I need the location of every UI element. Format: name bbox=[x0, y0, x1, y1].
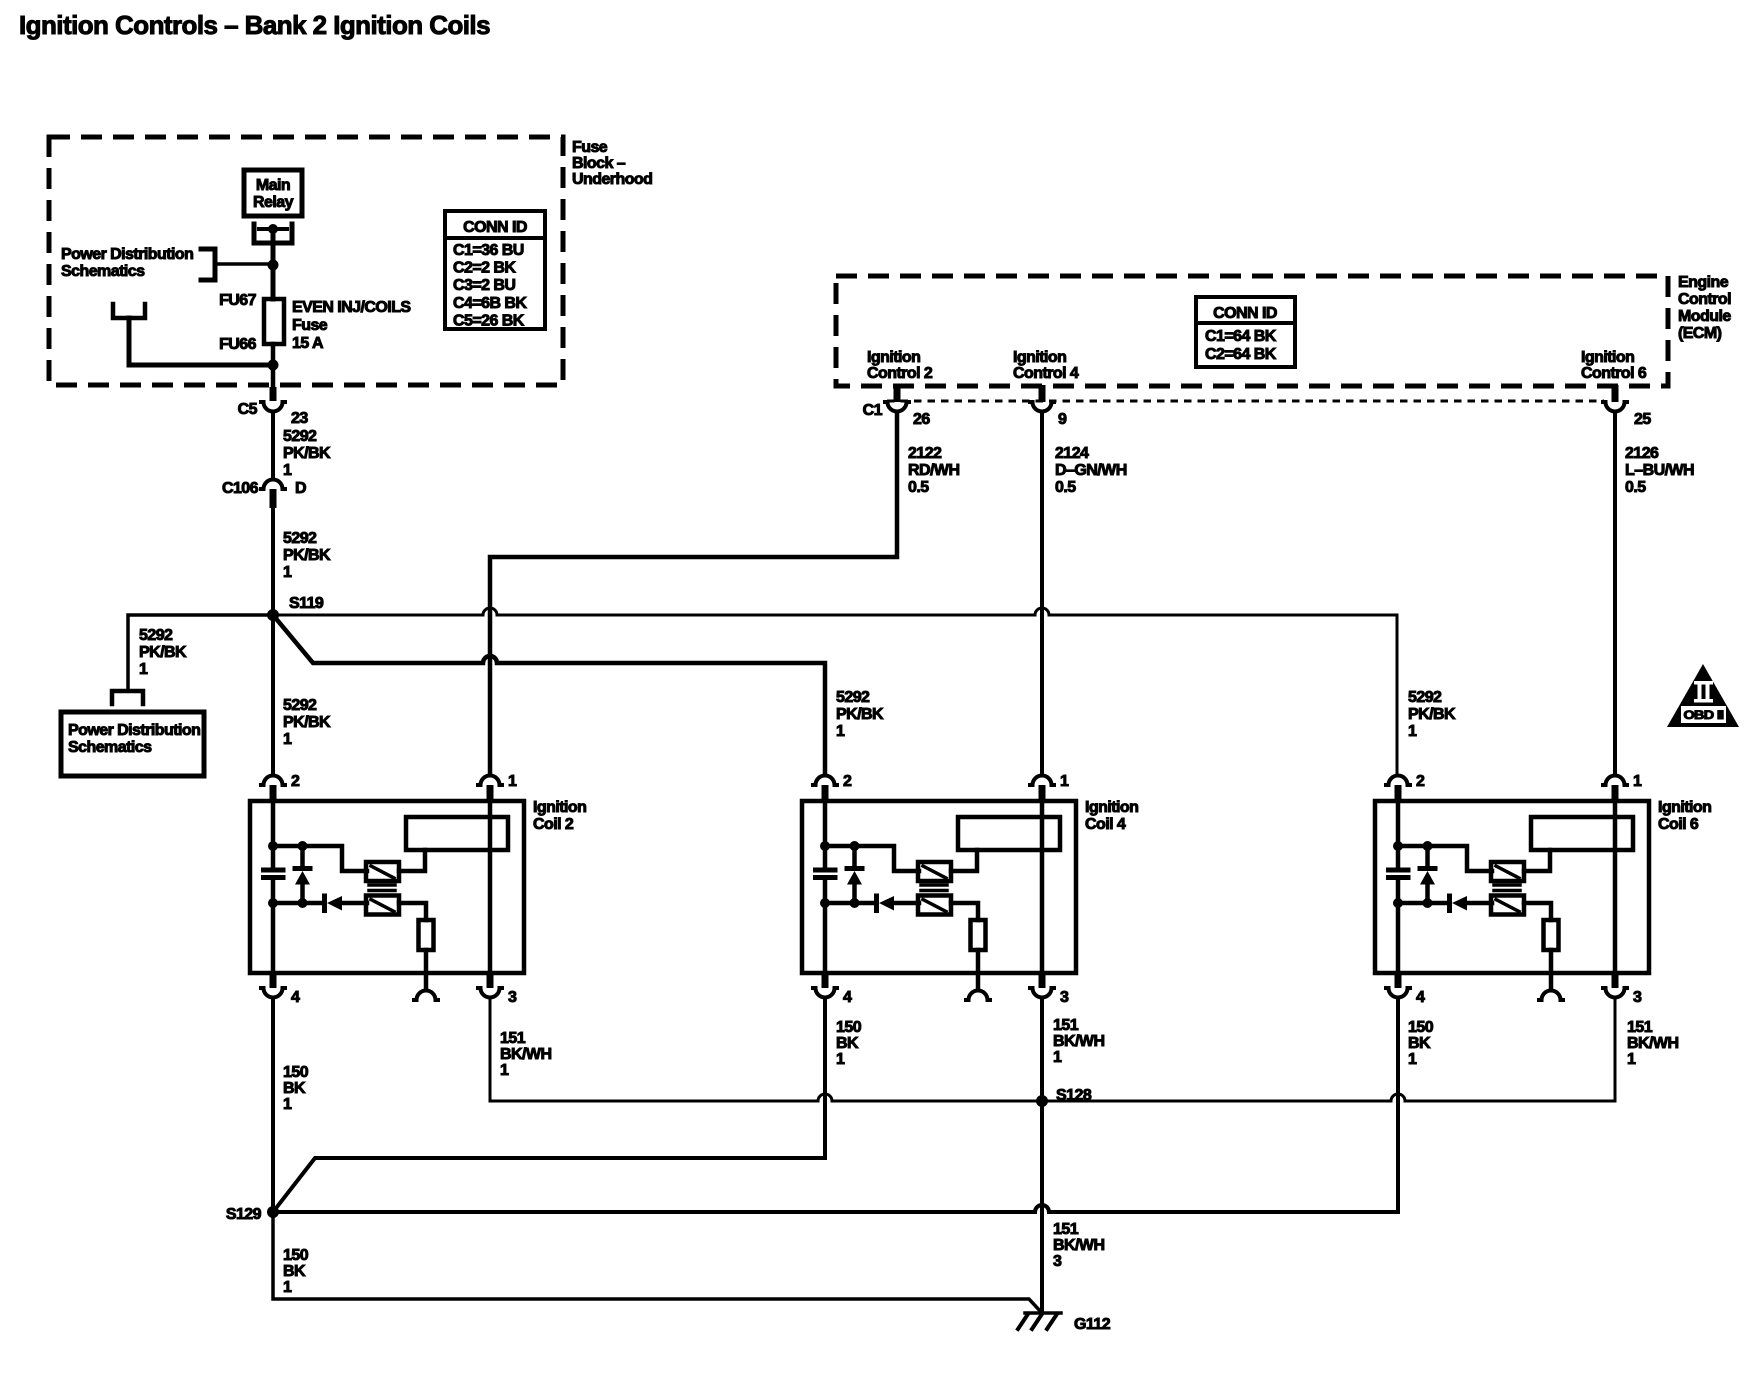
svg-text:Ignition: Ignition bbox=[1658, 799, 1711, 816]
svg-text:3: 3 bbox=[508, 989, 517, 1006]
svg-text:Fuse: Fuse bbox=[292, 317, 328, 334]
label: 151 BK/WH 1 (coil 2) bbox=[500, 1030, 551, 1079]
node: coil 4 bottom rail junction bbox=[820, 898, 830, 908]
svg-text:1: 1 bbox=[139, 661, 148, 678]
svg-text:C5: C5 bbox=[238, 401, 258, 418]
node: fuse bottom junction bbox=[268, 360, 279, 371]
svg-text:4: 4 bbox=[291, 989, 300, 1006]
label FU67 bbox=[219, 292, 257, 309]
svg-text:C1=36 BU: C1=36 BU bbox=[453, 242, 524, 259]
wire 151 BK/WH bus: coil 2 pin 3 to coil 6 pin 3 (hops at coil 4/6 pin 4 wires) bbox=[490, 1000, 1615, 1101]
label: 5292 PK/BK 1 bbox=[283, 530, 331, 581]
zener diode (coil 6) bbox=[1420, 846, 1435, 903]
ground G112 bbox=[1018, 1313, 1111, 1333]
zener diode (coil 4) bbox=[847, 846, 862, 903]
svg-text:0.5: 0.5 bbox=[1625, 479, 1646, 496]
coil winding block (coil 6) bbox=[1531, 817, 1633, 850]
svg-text:1: 1 bbox=[508, 773, 517, 790]
svg-text:2124: 2124 bbox=[1055, 445, 1089, 462]
svg-text:5292: 5292 bbox=[836, 689, 870, 706]
svg-text:Fuse: Fuse bbox=[572, 139, 608, 156]
label: 150 BK 1 (S129 to ground) bbox=[283, 1247, 309, 1296]
svg-text:PK/BK: PK/BK bbox=[283, 547, 331, 564]
svg-text:EVEN INJ/COILS: EVEN INJ/COILS bbox=[292, 299, 411, 316]
coil 2 secondary terminal connector bbox=[414, 991, 438, 1001]
svg-text:26: 26 bbox=[913, 411, 930, 428]
resistor (coil 2) bbox=[419, 920, 434, 950]
svg-text:BK: BK bbox=[283, 1263, 306, 1280]
optocoupler upper (coil 2) bbox=[366, 862, 399, 881]
wire 150 BK: coil 2 pin 4 down to S129 bbox=[271, 1000, 275, 1212]
svg-text:(ECM): (ECM) bbox=[1678, 325, 1722, 342]
svg-text:Ignition: Ignition bbox=[1085, 799, 1138, 816]
coil 2 pin 1 connector bbox=[478, 773, 517, 801]
svg-text:Block –: Block – bbox=[572, 155, 626, 172]
svg-text:Control 2: Control 2 bbox=[867, 365, 933, 382]
label: 5292 PK/BK 1 (coil 2 feed) bbox=[283, 697, 331, 748]
node: zener bottom (coil 6) bbox=[1423, 898, 1433, 908]
node: coil 2 top rail junction bbox=[268, 841, 278, 851]
svg-text:1: 1 bbox=[283, 1279, 292, 1296]
label: Ignition Coil 6 bbox=[1658, 799, 1711, 833]
svg-text:S128: S128 bbox=[1056, 1087, 1092, 1104]
svg-text:1: 1 bbox=[283, 462, 292, 479]
label FU66 bbox=[219, 336, 257, 353]
label: Power Distribution Schematics (top) bbox=[61, 246, 193, 280]
main relay terminal symbol bbox=[254, 224, 292, 243]
svg-text:1: 1 bbox=[836, 1051, 845, 1068]
svg-text:1: 1 bbox=[283, 731, 292, 748]
coil 6 secondary terminal connector bbox=[1539, 991, 1563, 1001]
node: zener bottom (coil 4) bbox=[850, 898, 860, 908]
svg-text:Coil 4: Coil 4 bbox=[1085, 816, 1126, 833]
ignition coil 4 module box bbox=[802, 801, 1076, 973]
svg-text:Control 6: Control 6 bbox=[1581, 365, 1647, 382]
ECM connector pin 9 bbox=[1030, 385, 1067, 428]
splice S129 bbox=[226, 1206, 279, 1223]
wire: coil 4 internal pin 2 rail bbox=[823, 801, 828, 973]
fuse block underhood dashed box bbox=[49, 137, 563, 385]
node: zener top (coil 6) bbox=[1423, 841, 1433, 851]
isolation barrier (coil 6) bbox=[1494, 885, 1520, 891]
svg-text:1: 1 bbox=[283, 564, 292, 581]
svg-text:Relay: Relay bbox=[253, 194, 294, 211]
svg-text:Power Distribution: Power Distribution bbox=[61, 246, 193, 263]
label: 5292 PK/BK 1 (left branch) bbox=[139, 627, 187, 678]
fuse FU67/FU66 EVEN INJ/COILS 15 A bbox=[264, 299, 284, 344]
off-page bracket to power distribution bbox=[201, 249, 215, 280]
svg-text:OBD II: OBD II bbox=[1684, 708, 1724, 722]
svg-text:25: 25 bbox=[1634, 411, 1651, 428]
svg-text:2122: 2122 bbox=[908, 445, 942, 462]
svg-text:150: 150 bbox=[836, 1019, 862, 1036]
label: 2124 D-GN/WH 0.5 bbox=[1055, 445, 1127, 496]
svg-text:PK/BK: PK/BK bbox=[283, 445, 331, 462]
svg-text:C106: C106 bbox=[222, 480, 259, 497]
coil 4 pin 2 connector bbox=[813, 773, 852, 801]
node: coil 6 top rail junction bbox=[1393, 841, 1403, 851]
zener diode (coil 2) bbox=[295, 846, 310, 903]
svg-text:Engine: Engine bbox=[1678, 274, 1729, 291]
svg-text:Underhood: Underhood bbox=[572, 171, 652, 188]
svg-text:0.5: 0.5 bbox=[1055, 479, 1076, 496]
svg-text:C2=2 BK: C2=2 BK bbox=[453, 260, 516, 277]
svg-text:PK/BK: PK/BK bbox=[836, 706, 884, 723]
svg-text:Coil 2: Coil 2 bbox=[533, 816, 574, 833]
optocoupler lower (coil 6) bbox=[1491, 896, 1524, 915]
label: Ignition Control 4 bbox=[1013, 349, 1079, 382]
wire: upper opto to coil winding (coil 2) bbox=[399, 850, 425, 871]
wire: resistor to secondary terminal (coil 4) bbox=[976, 950, 981, 989]
svg-text:C4=6B BK: C4=6B BK bbox=[453, 295, 527, 312]
CONN ID table (ECM) bbox=[1196, 297, 1295, 367]
svg-text:BK: BK bbox=[836, 1035, 859, 1052]
label: 2126 L-BU/WH 0.5 bbox=[1625, 445, 1694, 496]
splice S119 bbox=[267, 595, 324, 621]
off-page cup above power distribution box bbox=[112, 691, 143, 704]
svg-text:2126: 2126 bbox=[1625, 445, 1659, 462]
node: zener top (coil 2) bbox=[298, 841, 308, 851]
svg-text:23: 23 bbox=[291, 410, 308, 427]
splice S128 bbox=[1036, 1087, 1092, 1107]
connector C5 pin 23 bbox=[238, 387, 309, 427]
svg-text:1: 1 bbox=[283, 1096, 292, 1113]
wire: resistor to secondary terminal (coil 6) bbox=[1549, 950, 1554, 989]
node: coil 6 bottom rail junction bbox=[1393, 898, 1403, 908]
wire: lower opto to resistor (coil 4) bbox=[951, 903, 978, 920]
ECM connector pin 26 (C1) bbox=[863, 385, 931, 428]
label: Ignition Coil 2 bbox=[533, 799, 586, 833]
svg-text:S129: S129 bbox=[226, 1206, 262, 1223]
svg-text:3: 3 bbox=[1060, 989, 1069, 1006]
connector C106 pin D bbox=[222, 480, 306, 508]
svg-text:Power Distribution: Power Distribution bbox=[68, 722, 200, 739]
coil 4 pin 3 connector bbox=[1030, 973, 1069, 1006]
svg-text:RD/WH: RD/WH bbox=[908, 462, 959, 479]
svg-text:C3=2 BU: C3=2 BU bbox=[453, 277, 515, 294]
svg-text:1: 1 bbox=[1053, 1049, 1062, 1066]
svg-text:L–BU/WH: L–BU/WH bbox=[1625, 462, 1694, 479]
svg-text:4: 4 bbox=[843, 989, 852, 1006]
coil 6 pin 1 connector bbox=[1603, 773, 1642, 801]
svg-text:BK/WH: BK/WH bbox=[1053, 1237, 1104, 1254]
wire 2124 D-GN/WH: pin 9 to coil 4 pin 1 bbox=[1040, 413, 1044, 775]
label: 5292 PK/BK 1 bbox=[283, 428, 331, 479]
wire: bracket to relay junction bbox=[215, 262, 268, 266]
wire: S119 down to ignition coil 2 pin 2 bbox=[271, 615, 275, 775]
optocoupler upper (coil 6) bbox=[1491, 862, 1524, 881]
CONN ID table (fuse block) bbox=[445, 211, 545, 329]
svg-text:5292: 5292 bbox=[283, 428, 317, 445]
coil 2 pin 4 connector bbox=[261, 973, 300, 1006]
wire: S129 bus (hop at ground wire) bbox=[273, 1205, 1398, 1212]
wire: upper opto to coil winding (coil 6) bbox=[1524, 850, 1550, 871]
svg-text:PK/BK: PK/BK bbox=[139, 644, 187, 661]
wire: coil 4 internal pin 1 rail bbox=[1040, 801, 1045, 973]
isolation barrier (coil 4) bbox=[921, 885, 947, 891]
wire: resistor to secondary terminal (coil 2) bbox=[424, 950, 429, 989]
label: 150 BK 1 (coil 2) bbox=[283, 1064, 309, 1113]
wire: coil 4 top branch bbox=[825, 846, 919, 871]
diode (coil 2 control) bbox=[273, 896, 367, 911]
svg-text:BK: BK bbox=[1408, 1035, 1431, 1052]
wire: coil 2 internal pin 1 rail bbox=[488, 801, 493, 973]
svg-text:2: 2 bbox=[291, 773, 300, 790]
svg-text:5292: 5292 bbox=[1408, 689, 1442, 706]
svg-text:150: 150 bbox=[1408, 1019, 1434, 1036]
svg-text:BK/WH: BK/WH bbox=[1627, 1035, 1678, 1052]
svg-text:3: 3 bbox=[1053, 1253, 1062, 1270]
svg-text:15 A: 15 A bbox=[292, 335, 324, 352]
coil 6 pin 2 connector bbox=[1386, 773, 1425, 801]
coil winding block (coil 2) bbox=[406, 817, 508, 850]
label: Engine Control Module (ECM) bbox=[1678, 274, 1731, 342]
wire 150 BK: S129 down and right to ground bbox=[273, 1212, 1042, 1313]
ignition coil 6 module box bbox=[1375, 801, 1649, 973]
svg-text:FU66: FU66 bbox=[219, 336, 257, 353]
label: 151 BK/WH 3 bbox=[1053, 1221, 1104, 1270]
svg-text:9: 9 bbox=[1058, 411, 1067, 428]
coil 4 secondary terminal connector bbox=[966, 991, 990, 1001]
wire: fuse bottom to C5 bbox=[271, 344, 276, 387]
wire: coil 2 internal pin 2 rail bbox=[271, 801, 276, 973]
svg-text:Ignition: Ignition bbox=[867, 349, 920, 366]
wire: lower opto to resistor (coil 6) bbox=[1524, 903, 1551, 920]
wire: upper opto to coil winding (coil 4) bbox=[951, 850, 977, 871]
wire: coil 6 top branch bbox=[1398, 846, 1492, 871]
label: Ignition Coil 4 bbox=[1085, 799, 1138, 833]
label: EVEN INJ/COILS Fuse 15 A bbox=[292, 299, 411, 352]
label: 150 BK 1 (coil 6) bbox=[1408, 1019, 1434, 1068]
node: zener bottom (coil 2) bbox=[298, 898, 308, 908]
svg-text:FU67: FU67 bbox=[219, 292, 257, 309]
engine control module (ECM) dashed box bbox=[836, 276, 1668, 386]
wire: coil 6 internal pin 2 rail bbox=[1396, 801, 1401, 973]
coil 2 pin 3 connector bbox=[478, 973, 517, 1006]
node: coil 4 top rail junction bbox=[820, 841, 830, 851]
svg-text:1: 1 bbox=[1408, 723, 1417, 740]
svg-text:S119: S119 bbox=[289, 595, 324, 612]
wire: S119 diagonal bus to ignition coil 4 pin 2 (hop at crossing) bbox=[273, 615, 825, 775]
svg-text:Ignition: Ignition bbox=[1013, 349, 1066, 366]
svg-text:150: 150 bbox=[283, 1064, 309, 1081]
label: 151 BK/WH 1 (coil 6) bbox=[1627, 1019, 1678, 1068]
resistor (coil 4) bbox=[971, 920, 986, 950]
capacitor (coil 6 noise suppression) bbox=[1389, 870, 1409, 878]
svg-text:Ignition: Ignition bbox=[1581, 349, 1634, 366]
coil 6 pin 4 connector bbox=[1386, 973, 1425, 1006]
title: Ignition Controls - Bank 2 Ignition Coils bbox=[19, 10, 490, 40]
svg-text:1: 1 bbox=[1408, 1051, 1417, 1068]
optocoupler lower (coil 2) bbox=[366, 896, 399, 915]
wire 5292 PK/BK (C5 to C106) bbox=[271, 413, 275, 477]
coil 6 pin 3 connector bbox=[1603, 973, 1642, 1006]
svg-text:4: 4 bbox=[1416, 989, 1425, 1006]
svg-text:Main: Main bbox=[256, 177, 290, 194]
svg-text:151: 151 bbox=[1627, 1019, 1653, 1036]
svg-text:Ignition: Ignition bbox=[533, 799, 586, 816]
wire 151 BK/WH: coil 4 pin 3 to S128 bbox=[1040, 1000, 1044, 1101]
svg-text:0.5: 0.5 bbox=[908, 479, 929, 496]
wire: relay output stem bbox=[271, 229, 276, 299]
svg-text:C1: C1 bbox=[863, 402, 883, 419]
label: 5292 PK/BK 1 (coil 6 feed) bbox=[1408, 689, 1456, 740]
svg-text:CONN ID: CONN ID bbox=[1213, 305, 1277, 322]
resistor (coil 6) bbox=[1544, 920, 1559, 950]
node: coil 2 bottom rail junction bbox=[268, 898, 278, 908]
capacitor (coil 4 noise suppression) bbox=[816, 870, 836, 878]
svg-text:BK/WH: BK/WH bbox=[500, 1046, 551, 1063]
svg-text:BK: BK bbox=[283, 1080, 306, 1097]
svg-text:Ignition Controls – Bank 2 Ign: Ignition Controls – Bank 2 Ignition Coil… bbox=[19, 10, 490, 40]
coil 4 pin 4 connector bbox=[813, 973, 852, 1006]
ECM connector pin 25 bbox=[1603, 385, 1651, 428]
svg-text:D: D bbox=[295, 480, 306, 497]
svg-text:Schematics: Schematics bbox=[61, 263, 145, 280]
svg-text:5292: 5292 bbox=[139, 627, 173, 644]
svg-text:BK/WH: BK/WH bbox=[1053, 1033, 1104, 1050]
svg-text:Control 4: Control 4 bbox=[1013, 365, 1079, 382]
svg-text:C5=26 BK: C5=26 BK bbox=[453, 312, 525, 329]
svg-text:C1=64 BK: C1=64 BK bbox=[1205, 328, 1277, 345]
label: 2122 RD/WH 0.5 bbox=[908, 445, 959, 496]
coil 2 pin 2 connector bbox=[261, 773, 300, 801]
power distribution schematics reference box bbox=[61, 712, 204, 776]
wire: coil 2 top branch bbox=[273, 846, 367, 871]
off-page cup symbol (lower left, fuse block) bbox=[113, 304, 145, 318]
ECM C1 connector dashed line bbox=[887, 400, 1604, 403]
svg-text:Coil 6: Coil 6 bbox=[1658, 816, 1699, 833]
svg-text:2: 2 bbox=[1416, 773, 1425, 790]
wire 150 BK: coil 6 pin 4 to S129 bus bbox=[1396, 1000, 1400, 1212]
svg-text:Schematics: Schematics bbox=[68, 739, 152, 756]
label: Ignition Control 2 bbox=[867, 349, 933, 382]
svg-text:151: 151 bbox=[1053, 1017, 1079, 1034]
svg-text:1: 1 bbox=[836, 723, 845, 740]
svg-text:150: 150 bbox=[283, 1247, 309, 1264]
svg-text:1: 1 bbox=[500, 1062, 509, 1079]
node: relay feed junction bbox=[268, 260, 279, 271]
capacitor (coil 2 noise suppression) bbox=[264, 870, 284, 878]
label: Ignition Control 6 bbox=[1581, 349, 1647, 382]
svg-text:PK/BK: PK/BK bbox=[1408, 706, 1456, 723]
svg-text:PK/BK: PK/BK bbox=[283, 714, 331, 731]
main relay box bbox=[244, 170, 302, 216]
optocoupler lower (coil 4) bbox=[918, 896, 951, 915]
svg-text:1: 1 bbox=[1060, 773, 1069, 790]
label: 5292 PK/BK 1 (coil 4 feed) bbox=[836, 689, 884, 740]
node: zener top (coil 4) bbox=[850, 841, 860, 851]
svg-text:CONN ID: CONN ID bbox=[463, 219, 527, 236]
wire: thick branch left of fuse bottom bbox=[129, 318, 273, 365]
wire: coil 6 internal pin 1 rail bbox=[1613, 801, 1618, 973]
wire 2126 L-BU/WH: pin 25 to coil 6 pin 1 bbox=[1613, 413, 1617, 775]
svg-text:C2=64 BK: C2=64 BK bbox=[1205, 346, 1277, 363]
svg-text:5292: 5292 bbox=[283, 697, 317, 714]
svg-text:3: 3 bbox=[1633, 989, 1642, 1006]
svg-text:Module: Module bbox=[1678, 308, 1731, 325]
svg-text:G112: G112 bbox=[1074, 1316, 1111, 1333]
wire: S119 left branch to power distribution bbox=[128, 615, 273, 689]
wire 5292 PK/BK (C106 to S119) bbox=[271, 508, 275, 615]
coil winding block (coil 4) bbox=[958, 817, 1060, 850]
svg-text:1: 1 bbox=[1627, 1051, 1636, 1068]
svg-text:151: 151 bbox=[1053, 1221, 1079, 1238]
wire: S119 right bus to ignition coil 6 pin 2 (hops at crossings) bbox=[279, 608, 1397, 775]
wire: lower opto to resistor (coil 2) bbox=[399, 903, 426, 920]
label: Fuse Block - Underhood bbox=[572, 139, 652, 188]
wire 2122 RD/WH: pin 26 to coil 2 pin 1 bbox=[490, 413, 897, 775]
svg-text:1: 1 bbox=[1633, 773, 1642, 790]
diode (coil 4 control) bbox=[825, 896, 919, 911]
wire 151 BK/WH 3: S128 to ground G112 bbox=[1040, 1101, 1044, 1313]
svg-text:D–GN/WH: D–GN/WH bbox=[1055, 462, 1127, 479]
coil 4 pin 1 connector bbox=[1030, 773, 1069, 801]
diode (coil 6 control) bbox=[1398, 896, 1492, 911]
label: 151 BK/WH 1 (coil 4) bbox=[1053, 1017, 1104, 1066]
svg-text:5292: 5292 bbox=[283, 530, 317, 547]
svg-text:151: 151 bbox=[500, 1030, 526, 1047]
svg-text:Control: Control bbox=[1678, 291, 1731, 308]
isolation barrier (coil 2) bbox=[369, 885, 395, 891]
svg-text:2: 2 bbox=[843, 773, 852, 790]
OBD II symbol bbox=[1667, 664, 1739, 727]
optocoupler upper (coil 4) bbox=[918, 862, 951, 881]
ignition coil 2 module box bbox=[250, 801, 524, 973]
wire 150 BK: coil 4 pin 4 to S129 bbox=[273, 1000, 825, 1212]
label: 150 BK 1 (coil 4) bbox=[836, 1019, 862, 1068]
